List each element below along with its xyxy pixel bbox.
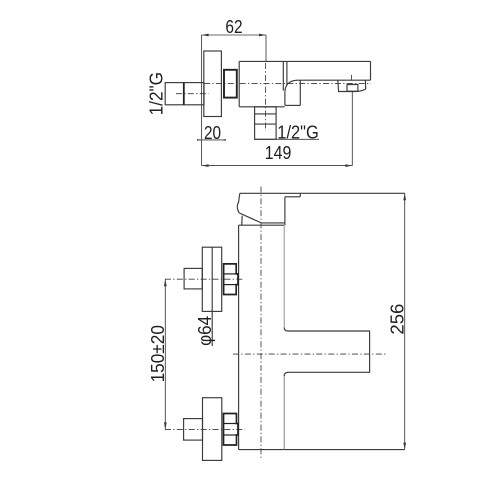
hex nut (top view, bold) bbox=[224, 70, 237, 98]
elbow right edge bbox=[299, 80, 301, 105]
leader underline for 1/2"G bbox=[255, 138, 319, 140]
upper connection centerline bbox=[165, 278, 243, 280]
fitting facet line 2 bbox=[255, 123, 277, 125]
body right edge lower segment (light) bbox=[283, 376, 285, 449]
body top edge bbox=[239, 224, 284, 226]
lower nut facet line 2 bbox=[224, 434, 237, 436]
main horizontal centerline (top view) bbox=[204, 82, 371, 84]
diverter knob under spout end bbox=[338, 80, 366, 91]
dimension 256 line bbox=[404, 193, 406, 449]
arm centerline bbox=[233, 353, 386, 355]
body right edge upper segment (light) bbox=[283, 225, 285, 327]
pipe divider (bold) bbox=[183, 83, 185, 105]
upper nut facet line 1 bbox=[224, 273, 237, 275]
fitting centerline bbox=[265, 63, 267, 131]
pipe centerline bbox=[176, 93, 209, 95]
svg-text:150±20: 150±20 bbox=[148, 325, 168, 382]
dimension 62 extension right (solid above body) bbox=[265, 35, 267, 61]
diverter center tick bbox=[351, 75, 353, 80]
wall flange (top view) bbox=[204, 51, 222, 117]
vertical centerline bbox=[260, 187, 262, 460]
dimension 20 right arrow bbox=[221, 139, 226, 141]
spout bottom edge bbox=[297, 79, 371, 81]
body bottom edge + 256 bottom extension bbox=[239, 449, 405, 451]
dimension 149 line bbox=[202, 165, 353, 167]
lower nipple bbox=[184, 419, 203, 441]
svg-text:φ64: φ64 bbox=[195, 316, 215, 346]
handle top line + 256 top extension bbox=[240, 192, 405, 194]
dimension 20 left arrow bbox=[197, 139, 202, 141]
dimension 150 top arrow bbox=[164, 279, 167, 286]
dimension 20 line bbox=[199, 139, 226, 141]
handle underside diagonal bbox=[239, 213, 261, 223]
dimension 150±20 line bbox=[164, 279, 166, 429]
body left edge bbox=[238, 225, 240, 449]
upper flange inner line + φ64 leader bbox=[211, 247, 213, 346]
handle tip step vertical bbox=[299, 193, 301, 197]
body/spout joint line 2 bbox=[286, 61, 288, 84]
body + spout top edge bbox=[239, 60, 370, 62]
upper nipple bbox=[184, 268, 202, 289]
svg-text:256: 256 bbox=[388, 304, 408, 335]
dimension 62 right arrow bbox=[259, 34, 266, 37]
body left edge bbox=[238, 61, 240, 106]
upper flange bbox=[202, 247, 221, 311]
upper nut facet line 2 bbox=[224, 284, 237, 286]
dimension 62 line bbox=[202, 34, 266, 36]
body/spout joint line 1 bbox=[282, 61, 284, 90]
extension line right of dim 149 bbox=[351, 92, 353, 166]
dimension 62 left arrow bbox=[202, 34, 209, 37]
handle left edge with pivot bump bbox=[237, 193, 239, 213]
handle neck diagonal bbox=[241, 216, 244, 226]
upper hex nut (bold) bbox=[224, 264, 238, 295]
dimension 150 bottom arrow bbox=[164, 422, 167, 429]
extension line left (shared by dims 62 / 20 / 149) bbox=[201, 35, 203, 166]
lower hex nut (bold) bbox=[224, 414, 239, 446]
handle tip underside bbox=[285, 196, 300, 198]
elbow inner arc bbox=[285, 80, 297, 91]
elbow bottom edge bbox=[285, 104, 300, 106]
lower connection centerline bbox=[165, 428, 245, 430]
bottom fitting 1/2"G (top view) bbox=[255, 107, 277, 140]
dimension 256 top arrow bbox=[403, 193, 406, 200]
spout arm outline bbox=[284, 328, 369, 377]
body bottom edge bbox=[239, 106, 285, 108]
svg-text:1/2"G: 1/2"G bbox=[146, 72, 166, 116]
lower nut facet line 1 bbox=[224, 423, 237, 425]
spout right edge bbox=[370, 61, 372, 80]
wall supply pipe (top view) bbox=[165, 83, 204, 105]
handle right edge bbox=[284, 197, 286, 225]
dimension 149 left arrow bbox=[202, 164, 209, 167]
diverter inner block bbox=[347, 85, 358, 92]
svg-text:1/2"G: 1/2"G bbox=[277, 123, 319, 143]
lower flange bbox=[203, 398, 222, 461]
fitting facet line 1 bbox=[255, 113, 277, 115]
elbow left edge bbox=[284, 92, 286, 106]
svg-text:149: 149 bbox=[265, 143, 292, 163]
svg-text:62: 62 bbox=[225, 17, 242, 37]
handle base line bbox=[261, 222, 285, 224]
dimension 149 right arrow bbox=[345, 164, 352, 167]
dimension 256 bottom arrow bbox=[403, 443, 406, 450]
